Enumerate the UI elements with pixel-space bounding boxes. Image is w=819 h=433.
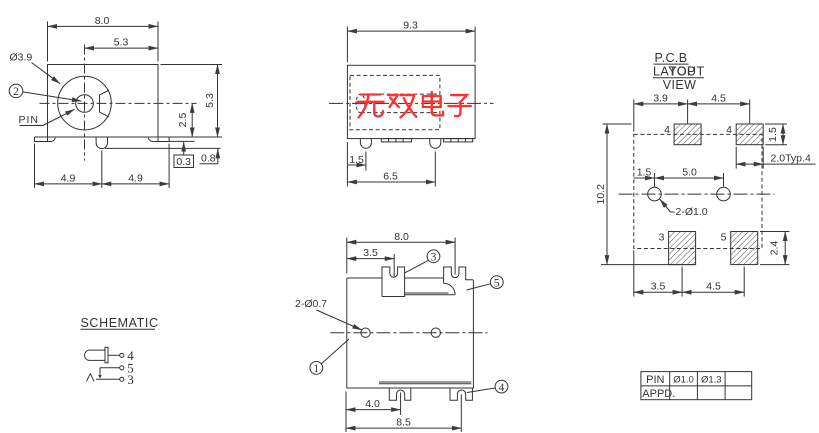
bottom band lines [379, 381, 471, 383]
dimension 10.2 [595, 124, 695, 265]
pad 5 bottom-right [721, 232, 758, 265]
svg-text:0.8: 0.8 [201, 153, 216, 165]
svg-text:3.5: 3.5 [363, 247, 378, 259]
front view body [48, 65, 159, 138]
svg-text:9.3: 9.3 [403, 20, 418, 32]
char wu [357, 95, 383, 118]
top tab 1 with slot [382, 267, 405, 297]
svg-text:5: 5 [721, 232, 727, 244]
svg-text:PIN: PIN [646, 374, 664, 386]
mounting holes 2x dia 1.0 [648, 187, 662, 201]
dimension 4.0 [346, 391, 401, 432]
svg-text:8.0: 8.0 [394, 231, 409, 243]
svg-text:4.0: 4.0 [365, 398, 380, 410]
label 2-dia1.0 leader [660, 199, 708, 218]
side view body [347, 65, 475, 138]
hidden pin tip dashed ellipse [356, 94, 365, 113]
char zi [448, 95, 470, 116]
svg-text:1.5: 1.5 [349, 154, 364, 166]
label dia 3.9 with leader [10, 52, 61, 84]
dimension 9.3 [347, 20, 475, 63]
svg-text:4: 4 [499, 382, 505, 394]
side view centerline [329, 102, 494, 104]
dimension 4.5 bottom [682, 267, 744, 297]
svg-text:1.5: 1.5 [637, 166, 652, 178]
dimension 0.8 [200, 149, 218, 165]
svg-text:2-Ø0.7: 2-Ø0.7 [295, 298, 327, 310]
hidden barrel dashed rect [350, 75, 440, 129]
char shuang [388, 95, 416, 117]
dimension 4.5 top [688, 92, 750, 124]
svg-text:8.5: 8.5 [396, 417, 411, 429]
balloon 3 [404, 250, 440, 273]
horizontal centerline [40, 102, 197, 104]
bottom tab A [389, 388, 411, 400]
bottom center pin U [96, 137, 107, 149]
svg-text:0.3: 0.3 [176, 156, 191, 168]
dimension 2.0 Typ.4 [736, 147, 815, 169]
terminal 4 [120, 348, 135, 363]
pad 4 top-left [664, 124, 701, 145]
dimension 1.5 hole offset [634, 166, 655, 178]
char dian [423, 92, 443, 115]
board standoff tabs group 1 [381, 139, 411, 142]
fillet arc under tab 2 [444, 283, 456, 295]
svg-text:3.5: 3.5 [651, 281, 666, 293]
pin table [641, 372, 752, 400]
pcb outline dashed rect [634, 134, 762, 248]
svg-text:2.4: 2.4 [769, 241, 781, 256]
pin holes 2x dia0.7 [361, 328, 370, 337]
balloon 5 [467, 276, 504, 290]
dimension 6.5 [347, 152, 435, 187]
svg-text:P.C.B: P.C.B [654, 51, 687, 65]
dimension 2.5 right vertical [169, 103, 222, 137]
svg-text:2: 2 [13, 84, 19, 98]
svg-text:5: 5 [494, 277, 500, 289]
pin bottom reference line [105, 147, 221, 149]
svg-text:3: 3 [431, 252, 437, 264]
svg-text:4: 4 [726, 124, 732, 136]
terminal 5 [98, 361, 134, 379]
svg-text:6.5: 6.5 [383, 171, 398, 183]
svg-text:2-Ø1.0: 2-Ø1.0 [676, 206, 708, 218]
svg-text:PIN: PIN [19, 114, 40, 126]
svg-text:4.5: 4.5 [706, 281, 721, 293]
svg-text:1.5: 1.5 [767, 127, 779, 142]
svg-text:Ø1.3: Ø1.3 [701, 374, 722, 385]
outer barrel circle [58, 76, 112, 130]
vertical centerline [84, 45, 86, 161]
balloon 4 [467, 380, 508, 394]
title LAYOUT with TOP overlapped [653, 65, 705, 79]
svg-text:Ø1.0: Ø1.0 [673, 374, 694, 385]
dimension 3.5 bottom [634, 251, 682, 297]
label PIN with leader [19, 109, 75, 126]
svg-text:4.5: 4.5 [711, 92, 726, 104]
schematic title [81, 316, 159, 330]
bottom tab B [450, 388, 472, 400]
dimension 8.0 [48, 15, 159, 62]
bottom view body [347, 278, 474, 388]
side view pin 2 [430, 139, 441, 149]
board standoff tabs group 2 [444, 139, 473, 142]
pad 4 top-right [726, 124, 763, 145]
svg-text:3: 3 [127, 372, 134, 387]
hidden pin dashed lines [361, 93, 440, 95]
balloon 1 [310, 339, 349, 375]
svg-text:10.2: 10.2 [595, 184, 607, 205]
body top edge segments [347, 277, 382, 279]
anti-rotation key notch [100, 90, 110, 117]
bottom view centerline [330, 332, 487, 334]
top tab 2 with slot and step [444, 267, 473, 283]
center pin circle [76, 95, 94, 113]
svg-text:2.0Typ.4: 2.0Typ.4 [771, 153, 811, 165]
dimension 4.9 4.9 bottom [35, 144, 170, 189]
svg-text:8.0: 8.0 [95, 15, 110, 27]
svg-text:4: 4 [664, 124, 670, 136]
svg-text:2.5: 2.5 [177, 113, 189, 128]
flange left pad [35, 137, 56, 142]
terminal 3 with switch contact [87, 372, 134, 387]
dimension 2.4 pad height [760, 232, 790, 265]
dimension 1.5 pad height [765, 124, 787, 145]
balloon 2 [9, 84, 81, 101]
svg-text:3: 3 [659, 232, 665, 244]
svg-text:Ø3.9: Ø3.9 [10, 52, 33, 64]
svg-text:1: 1 [313, 363, 319, 375]
center pin symbol [85, 347, 120, 363]
svg-text:4.9: 4.9 [128, 173, 143, 185]
flange top line [35, 136, 170, 138]
side view pin 1 [360, 139, 371, 149]
dimension 1.5 pin offset [347, 142, 366, 187]
dimension 0.3 boxed [169, 141, 194, 167]
svg-text:3.9: 3.9 [653, 92, 668, 104]
dimension 5.3 right vertical [161, 65, 223, 138]
svg-text:TOP: TOP [669, 65, 696, 79]
svg-text:APPD.: APPD. [642, 388, 675, 400]
svg-text:5.0: 5.0 [682, 166, 697, 178]
body side stubs through flange [47, 137, 49, 142]
svg-text:5.3: 5.3 [114, 37, 129, 49]
dimension 3.5 bottom view [347, 247, 394, 276]
svg-text:SCHEMATIC: SCHEMATIC [81, 316, 159, 330]
flange right pad [148, 137, 169, 142]
dimension 8.5 [346, 395, 461, 433]
label 2-dia0.7 leader [295, 298, 362, 330]
watermark text strokes (red) [357, 92, 470, 117]
title P.C.B [654, 51, 689, 65]
dimension 5.0 [655, 166, 724, 186]
shield plate lines [405, 292, 449, 294]
dimension 3.9 [634, 92, 688, 131]
dimension 8.0 bottom view [347, 231, 455, 275]
pcb centerline [619, 193, 775, 195]
svg-text:4.9: 4.9 [61, 173, 76, 185]
svg-text:5.3: 5.3 [204, 93, 216, 108]
svg-text:VIEW: VIEW [663, 78, 697, 92]
dimension 5.3 top [85, 37, 159, 49]
pad 3 bottom-left [659, 232, 696, 265]
